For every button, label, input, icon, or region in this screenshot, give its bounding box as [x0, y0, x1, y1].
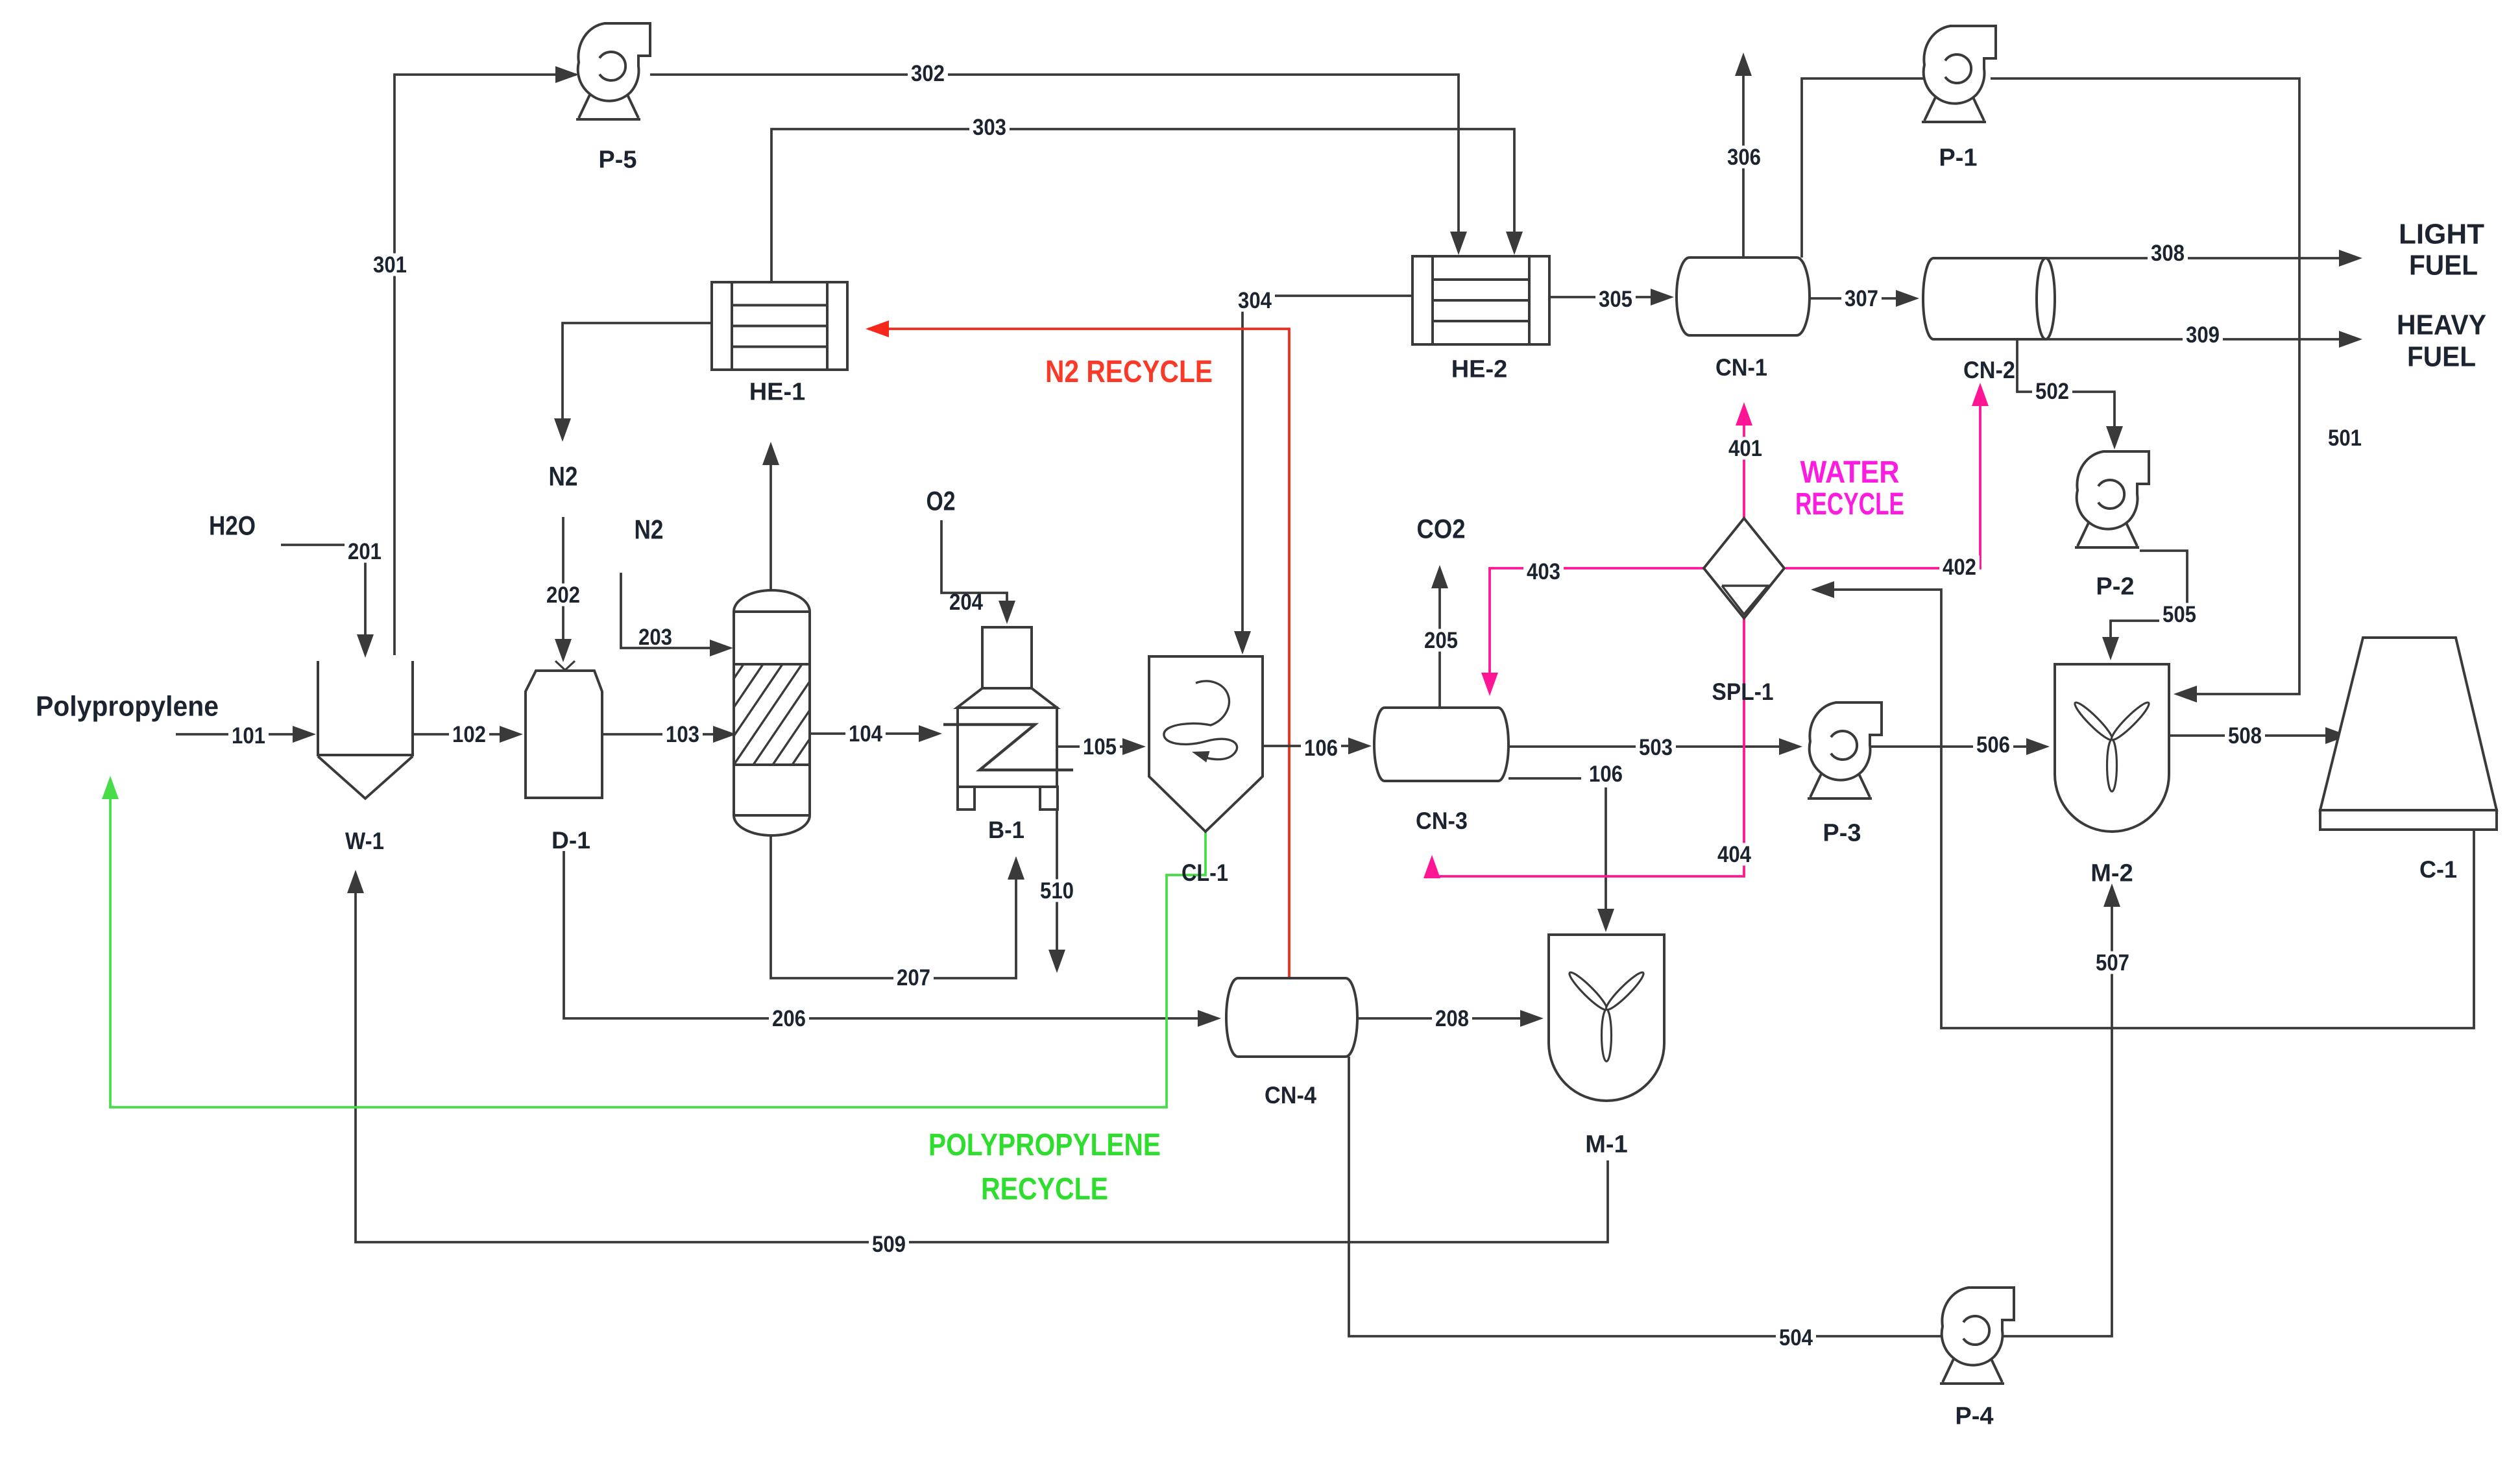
svg-text:HE-1: HE-1 — [749, 378, 806, 405]
svg-text:501: 501 — [2328, 426, 2362, 451]
svg-text:B-1: B-1 — [988, 817, 1024, 843]
svg-text:FUEL: FUEL — [2407, 341, 2476, 372]
svg-text:P-2: P-2 — [2096, 573, 2134, 600]
svg-text:POLYPROPYLENE: POLYPROPYLENE — [928, 1128, 1161, 1162]
svg-text:H2O: H2O — [209, 510, 256, 541]
svg-text:304: 304 — [1238, 288, 1272, 313]
svg-text:HEAVY: HEAVY — [2397, 309, 2486, 341]
svg-text:205: 205 — [1424, 628, 1458, 653]
svg-text:SPL-1: SPL-1 — [1712, 678, 1774, 705]
svg-text:402: 402 — [1943, 555, 1976, 580]
svg-text:505: 505 — [2163, 602, 2196, 627]
svg-text:503: 503 — [1639, 735, 1673, 760]
svg-text:P-1: P-1 — [1939, 144, 1977, 171]
svg-text:403: 403 — [1527, 559, 1560, 584]
svg-text:N2: N2 — [635, 514, 664, 545]
svg-text:306: 306 — [1727, 145, 1761, 170]
svg-text:P-3: P-3 — [1823, 819, 1861, 846]
svg-text:207: 207 — [897, 965, 930, 990]
svg-text:N2: N2 — [549, 461, 578, 492]
svg-text:504: 504 — [1779, 1325, 1813, 1350]
svg-text:CN-2: CN-2 — [1963, 357, 2015, 383]
svg-text:P-4: P-4 — [1955, 1402, 1993, 1430]
svg-text:401: 401 — [1728, 436, 1762, 461]
svg-text:509: 509 — [872, 1232, 906, 1257]
svg-text:M-1: M-1 — [1585, 1131, 1627, 1158]
svg-text:102: 102 — [452, 722, 486, 747]
svg-text:FUEL: FUEL — [2409, 249, 2478, 281]
svg-text:404: 404 — [1717, 842, 1751, 867]
svg-text:203: 203 — [638, 625, 672, 650]
svg-text:CL-1: CL-1 — [1181, 859, 1228, 886]
svg-text:507: 507 — [2096, 950, 2129, 976]
svg-text:LIGHT: LIGHT — [2399, 218, 2484, 250]
svg-text:106: 106 — [1304, 736, 1338, 761]
svg-text:105: 105 — [1083, 734, 1117, 760]
svg-text:206: 206 — [772, 1006, 806, 1031]
svg-text:307: 307 — [1845, 286, 1878, 311]
svg-text:D-1: D-1 — [551, 827, 590, 854]
svg-text:202: 202 — [546, 582, 580, 608]
svg-text:303: 303 — [973, 115, 1006, 140]
svg-text:Polypropylene: Polypropylene — [36, 690, 219, 722]
svg-text:302: 302 — [911, 61, 945, 86]
svg-text:502: 502 — [2035, 379, 2069, 404]
svg-text:508: 508 — [2228, 723, 2262, 749]
svg-text:CN-4: CN-4 — [1265, 1082, 1316, 1109]
svg-text:104: 104 — [849, 721, 882, 747]
svg-text:CO2: CO2 — [1417, 514, 1466, 544]
svg-text:RECYCLE: RECYCLE — [1795, 487, 1904, 522]
svg-text:RECYCLE: RECYCLE — [981, 1172, 1108, 1206]
svg-text:CN-3: CN-3 — [1416, 808, 1468, 834]
svg-text:510: 510 — [1040, 878, 1074, 904]
svg-text:201: 201 — [348, 539, 382, 564]
svg-text:W-1: W-1 — [345, 828, 384, 854]
svg-text:204: 204 — [949, 590, 983, 615]
svg-text:CN-1: CN-1 — [1715, 354, 1767, 381]
svg-text:309: 309 — [2186, 322, 2220, 348]
svg-text:208: 208 — [1435, 1006, 1469, 1031]
svg-text:301: 301 — [373, 252, 407, 278]
svg-text:HE-2: HE-2 — [1451, 355, 1508, 383]
svg-text:106: 106 — [1589, 762, 1623, 787]
svg-text:N2 RECYCLE: N2 RECYCLE — [1045, 355, 1213, 389]
svg-text:M-2: M-2 — [2090, 859, 2133, 887]
svg-text:C-1: C-1 — [2419, 856, 2457, 883]
svg-text:101: 101 — [232, 723, 265, 749]
svg-text:103: 103 — [666, 722, 699, 747]
svg-text:305: 305 — [1599, 287, 1632, 312]
svg-text:P-5: P-5 — [598, 146, 636, 173]
svg-text:308: 308 — [2151, 241, 2185, 266]
svg-text:506: 506 — [1976, 732, 2010, 758]
svg-text:WATER: WATER — [1800, 455, 1900, 490]
svg-text:O2: O2 — [927, 486, 956, 516]
